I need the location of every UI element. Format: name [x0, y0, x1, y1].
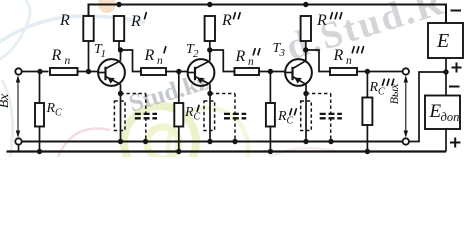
svg-text:доп: доп — [441, 110, 460, 124]
svg-text:C: C — [194, 112, 201, 123]
svg-text:R: R — [235, 48, 246, 65]
svg-text:R: R — [277, 109, 287, 124]
svg-text:R: R — [184, 105, 194, 120]
svg-text:3: 3 — [279, 47, 286, 59]
svg-text:R: R — [316, 12, 327, 29]
svg-text:R: R — [221, 12, 232, 29]
svg-text:E: E — [436, 30, 449, 52]
svg-text:C: C — [378, 87, 385, 98]
svg-text:R: R — [333, 47, 344, 64]
svg-text:1: 1 — [101, 48, 107, 60]
svg-text:R: R — [51, 47, 62, 64]
svg-text:п: п — [157, 55, 163, 67]
svg-text:R: R — [59, 12, 70, 29]
svg-text:C: C — [55, 108, 62, 119]
svg-text:2: 2 — [193, 48, 199, 60]
svg-text:R: R — [46, 101, 56, 116]
svg-text:R: R — [369, 80, 379, 95]
svg-text:R: R — [130, 13, 141, 30]
svg-text:R: R — [144, 47, 155, 64]
svg-text:Вых: Вых — [387, 83, 401, 104]
svg-text:п: п — [65, 55, 71, 67]
svg-text:п: п — [346, 55, 352, 67]
svg-text:Вх: Вх — [0, 93, 12, 108]
svg-text:C: C — [287, 116, 294, 127]
svg-text:п: п — [248, 56, 254, 68]
